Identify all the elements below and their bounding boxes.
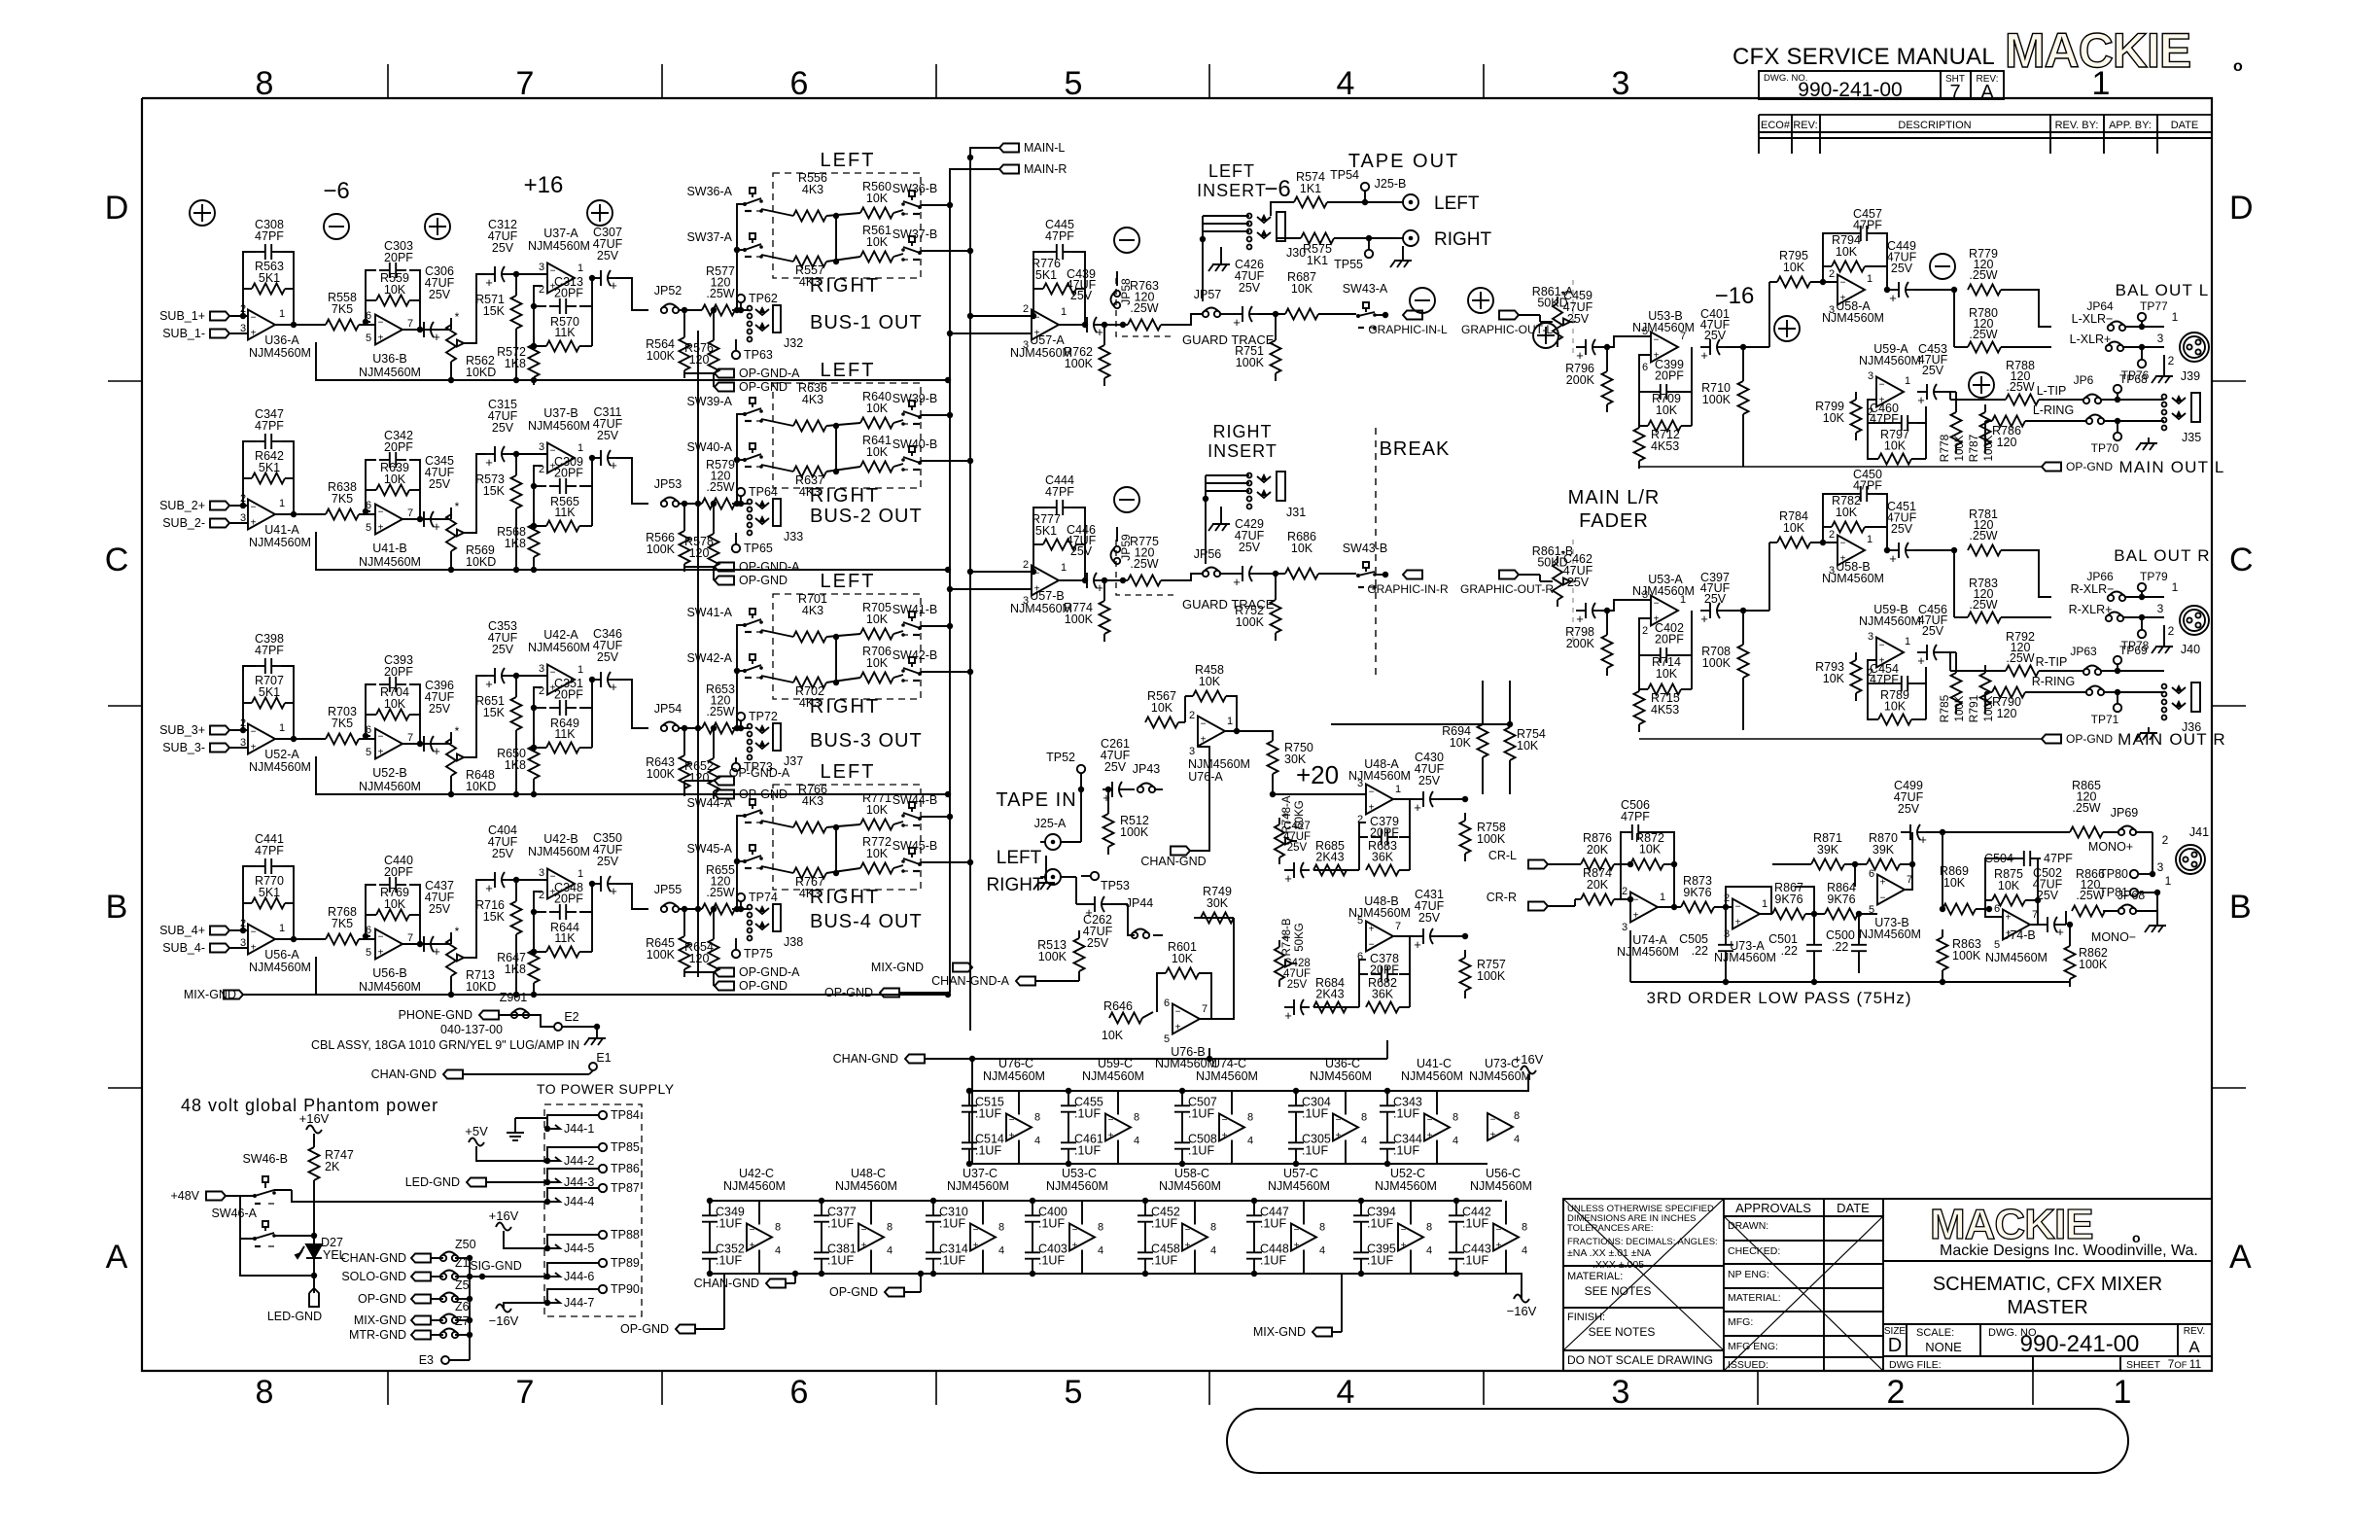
svg-text:+: +: [1576, 348, 1584, 363]
-16V row2: [1514, 1295, 1529, 1303]
svg-text:2K43: 2K43: [1315, 988, 1344, 1001]
svg-text:D: D: [2229, 190, 2254, 227]
capacitor C353 47UF: [485, 675, 495, 677]
bypass wires: [1295, 1091, 1297, 1096]
+5V supply: [469, 1138, 484, 1146]
svg-text:MTR-GND: MTR-GND: [349, 1328, 406, 1342]
svg-text:OP-GND: OP-GND: [739, 380, 787, 394]
svg-text:36K: 36K: [1372, 851, 1394, 864]
resistor R578 120: [713, 526, 715, 534]
svg-text:1: 1: [2165, 874, 2172, 888]
svg-text:NJM4560M: NJM4560M: [359, 366, 421, 379]
capacitor C506 47PF: [1622, 831, 1632, 833]
svg-text:J41: J41: [2189, 825, 2209, 839]
svg-text:5K1: 5K1: [1035, 268, 1057, 282]
svg-text:R-XLR+: R-XLR+: [2069, 603, 2113, 616]
svg-text:SUB_4+: SUB_4+: [159, 924, 205, 937]
resistor R650 1K8: [533, 738, 535, 746]
svg-text:−: −: [378, 932, 384, 943]
svg-text:TP74: TP74: [749, 891, 778, 904]
jumper JP64: [2108, 325, 2114, 331]
svg-text:SW45-A: SW45-A: [686, 842, 732, 856]
resistor R777 5K1: [1043, 540, 1076, 550]
svg-text:47PF: 47PF: [1045, 485, 1074, 499]
channel feed wires to banks: [737, 204, 745, 310]
svg-text:+: +: [1185, 1241, 1191, 1251]
svg-text:11: 11: [2189, 1357, 2202, 1371]
svg-text:−: −: [1840, 539, 1846, 549]
resistor R649 11K: [546, 743, 579, 753]
svg-text:TP63: TP63: [744, 348, 773, 362]
svg-text:200K: 200K: [1566, 637, 1595, 650]
svg-text:CHAN-GND: CHAN-GND: [833, 1052, 898, 1066]
svg-text:2: 2: [2168, 354, 2175, 367]
capacitor C501 .22: [1813, 934, 1815, 945]
op-amp U74-B: [2003, 910, 2030, 940]
resistor R775 120 .25W: [1128, 576, 1161, 586]
test point TP55: [1365, 250, 1373, 258]
jumper JP56: [1203, 571, 1208, 577]
svg-text:REV.: REV.: [2184, 1326, 2205, 1337]
svg-text:.1UF: .1UF: [1393, 1107, 1419, 1121]
bypass row 1 rails: [972, 1090, 1517, 1092]
svg-text:JP59: JP59: [1119, 534, 1133, 561]
svg-text:TP85: TP85: [611, 1140, 640, 1154]
potentiometer R569 10KD: [450, 507, 452, 514]
svg-text:2: 2: [1724, 892, 1730, 904]
svg-text:U37-A: U37-A: [543, 227, 578, 240]
capacitor C308 47PF: [255, 251, 265, 253]
resistor R573 15K: [515, 468, 517, 475]
svg-text:100K: 100K: [1120, 825, 1149, 839]
test point TP73: [732, 763, 740, 771]
flag OP-GND mid: [880, 989, 899, 997]
svg-text:4: 4: [1514, 1134, 1520, 1145]
svg-text:.1UF: .1UF: [939, 1217, 965, 1231]
wire input-: [229, 747, 248, 749]
svg-text:NJM4560M: NJM4560M: [1159, 1179, 1221, 1193]
svg-text:FADER: FADER: [1579, 510, 1649, 532]
svg-text:NJM4560M: NJM4560M: [1617, 945, 1679, 959]
svg-text:25V: 25V: [1898, 802, 1920, 816]
svg-text:5K1: 5K1: [259, 886, 280, 899]
+48V J44-4 wire: [274, 1189, 292, 1191]
svg-text:25V: 25V: [1418, 774, 1441, 787]
op-amp U76-B: [1172, 1004, 1200, 1034]
svg-text:10K: 10K: [1998, 879, 2020, 892]
svg-text:10K: 10K: [1199, 675, 1221, 688]
svg-text:REV. BY:: REV. BY:: [2055, 120, 2099, 131]
wire to bus: [616, 884, 648, 909]
svg-text:100K: 100K: [1952, 949, 1981, 962]
flag PHONE-GND: [479, 1011, 499, 1020]
test point TP85: [599, 1143, 607, 1151]
svg-text:U56-B: U56-B: [372, 966, 406, 980]
op-amp U36-A: [248, 310, 275, 340]
svg-text:25V: 25V: [1567, 576, 1590, 589]
svg-text:10K: 10K: [866, 445, 889, 459]
capacitor C350 47UF: [591, 883, 601, 885]
svg-text:D: D: [105, 190, 129, 227]
svg-text:+: +: [1108, 1131, 1114, 1141]
svg-text:TP90: TP90: [611, 1282, 640, 1296]
input flag SUB_3-: [210, 744, 229, 752]
wire opamp1 out: [275, 738, 326, 740]
capacitor C443 .1UF: [1455, 1242, 1457, 1253]
bypass wires: [1181, 1091, 1183, 1096]
wire input+: [229, 505, 248, 507]
svg-text:8: 8: [1034, 1112, 1040, 1124]
svg-text:2K: 2K: [325, 1160, 340, 1173]
svg-text:+: +: [1284, 871, 1292, 886]
resistor R702 4K3: [793, 678, 826, 688]
svg-text:3: 3: [1622, 922, 1627, 933]
ferrite Z6: [440, 1317, 446, 1323]
svg-text:8: 8: [1452, 1112, 1458, 1124]
flag MIX-GND: [411, 1316, 431, 1325]
ferrite Z901: [511, 1012, 517, 1018]
svg-text:100K: 100K: [1236, 615, 1265, 629]
jack wires: [732, 727, 745, 729]
svg-text:D27: D27: [321, 1236, 343, 1249]
svg-text:−16: −16: [1715, 283, 1755, 309]
svg-text:6: 6: [1164, 997, 1170, 1009]
svg-text:MAIN-R: MAIN-R: [1024, 162, 1067, 176]
dashed selector box: [773, 383, 921, 488]
switch SW42-B: [909, 657, 915, 663]
svg-text:39K: 39K: [1872, 843, 1895, 857]
capacitor C312 47UF: [485, 273, 495, 275]
svg-text:L-XLR−: L-XLR−: [2072, 312, 2114, 326]
svg-text:7K5: 7K5: [332, 917, 353, 930]
svg-text:4K3: 4K3: [802, 794, 823, 808]
svg-text:R748-A: R748-A: [1281, 795, 1293, 833]
size scale cells: [1906, 1324, 1907, 1356]
svg-text:+: +: [1700, 612, 1708, 626]
resistor R576 120: [713, 332, 715, 340]
svg-text:.1UF: .1UF: [716, 1217, 742, 1231]
resistor R876 20K: [1581, 859, 1614, 870]
svg-text:TP80: TP80: [2099, 867, 2128, 881]
feedback3 wires: [534, 286, 546, 346]
svg-text:−: −: [1185, 1225, 1191, 1236]
op-amp U42-B: [547, 869, 575, 899]
svg-text:+: +: [1917, 653, 1925, 668]
svg-text:3: 3: [1612, 65, 1630, 102]
wire MAIN-R: [950, 169, 999, 202]
op-amp U74-A: [1630, 892, 1658, 923]
flag CHAN-GND-A: [1016, 977, 1035, 986]
resistor R637 4K3: [793, 467, 826, 477]
svg-text:TP79: TP79: [2140, 570, 2168, 583]
svg-text:NJM4560M: NJM4560M: [1859, 614, 1921, 628]
svg-text:4: 4: [998, 1245, 1004, 1257]
resistor R512 100K: [1107, 806, 1109, 814]
op-amp U37-A: [547, 263, 575, 294]
svg-text:NJM4560M: NJM4560M: [1470, 1179, 1532, 1193]
svg-text:−: −: [378, 732, 384, 743]
svg-text:BUS-1 OUT: BUS-1 OUT: [810, 312, 923, 333]
capacitor C261 47UF: [1102, 788, 1112, 790]
svg-text:LEFT: LEFT: [1434, 193, 1480, 214]
svg-text:U57-A: U57-A: [1030, 333, 1065, 347]
svg-text:120: 120: [689, 353, 710, 367]
svg-text:2: 2: [1189, 710, 1195, 721]
svg-text:−: −: [1034, 569, 1040, 579]
test point TP77: [2138, 313, 2146, 321]
wire input: [1011, 571, 1033, 573]
connector pin J44-2: [550, 1157, 560, 1161]
svg-text:5: 5: [1065, 65, 1083, 102]
svg-text:−: −: [1880, 893, 1886, 904]
svg-text:100K: 100K: [1954, 695, 1966, 721]
svg-text:R-TIP: R-TIP: [2036, 655, 2068, 669]
test point TP64: [737, 488, 745, 496]
phantom wires: [240, 1196, 255, 1239]
svg-text:J44-1: J44-1: [564, 1122, 594, 1136]
jack wires: [732, 908, 745, 910]
jumper tip: [2083, 398, 2089, 403]
svg-text:U42-C: U42-C: [739, 1167, 774, 1180]
op-amp U57-A: [1032, 310, 1059, 340]
svg-text:R787: R787: [1967, 434, 1980, 462]
capacitor C460 47PF: [1891, 422, 1902, 424]
svg-text:MACKIE: MACKIE: [2005, 23, 2190, 78]
svg-text:10K: 10K: [1291, 282, 1313, 296]
svg-text:E1: E1: [596, 1051, 611, 1065]
wire opamp2 out: [402, 743, 439, 745]
svg-text:25V: 25V: [597, 429, 619, 442]
svg-text:7: 7: [1395, 921, 1401, 932]
bypass wires: [1360, 1201, 1362, 1206]
svg-text:GRAPHIC-OUT-R: GRAPHIC-OUT-R: [1460, 582, 1554, 596]
svg-text:+: +: [251, 743, 257, 753]
switch SW44-B: [909, 802, 915, 808]
flag CHAN-GND row1: [905, 1055, 925, 1064]
fader pot R861-A 50KD: [1557, 297, 1558, 303]
svg-text:.22: .22: [1832, 940, 1848, 954]
ground at J30: [1220, 259, 1222, 264]
flag CHAN-GND row2: [766, 1279, 786, 1288]
svg-text:3: 3: [1868, 631, 1873, 643]
test point TP53: [1091, 872, 1099, 880]
svg-text:3: 3: [240, 937, 246, 949]
capacitor C400 .1UF: [1032, 1206, 1033, 1216]
LED-GND flag power: [467, 1178, 486, 1187]
svg-text:10KD: 10KD: [466, 366, 496, 379]
resistor R771 10K: [860, 820, 893, 830]
svg-text:JP63: JP63: [2070, 645, 2097, 658]
svg-text:TP52: TP52: [1046, 751, 1075, 764]
svg-text:25V: 25V: [1070, 289, 1093, 302]
test point TP76: [2138, 360, 2146, 367]
test point TP90: [599, 1285, 607, 1293]
test point TP84: [599, 1111, 607, 1119]
resistor R778 100K: [1955, 404, 1957, 412]
resistor R513 100K: [1078, 930, 1080, 938]
svg-text:100K: 100K: [1477, 832, 1506, 846]
capacitor C499 47UF: [1901, 831, 1910, 833]
wire to XLR minus: [2001, 550, 2051, 597]
svg-text:NJM4560M: NJM4560M: [359, 980, 421, 994]
bank2 wires to rails: [921, 414, 950, 416]
resistor R708 100K: [1742, 637, 1744, 645]
jumper ring: [2086, 689, 2092, 695]
switch SW44-A: [750, 799, 755, 805]
svg-text:CHAN-GND: CHAN-GND: [694, 1277, 759, 1290]
resistor R785 100K: [1955, 665, 1957, 673]
svg-text:1: 1: [1227, 716, 1233, 727]
switch SW40-B: [909, 446, 915, 452]
svg-text:+: +: [1917, 393, 1925, 407]
wire input-: [229, 332, 248, 334]
resistor R769 10K: [376, 910, 409, 921]
resistor R716 15K: [515, 893, 517, 901]
svg-text:.25W: .25W: [1969, 268, 1997, 282]
svg-text:25V: 25V: [429, 477, 451, 491]
svg-text:.1UF: .1UF: [1462, 1217, 1488, 1231]
svg-text:J44-5: J44-5: [564, 1242, 594, 1255]
svg-text:1: 1: [2114, 1374, 2132, 1411]
svg-text:25V: 25V: [1704, 592, 1727, 606]
svg-text:JP53: JP53: [654, 477, 682, 491]
svg-text:LED-GND: LED-GND: [267, 1310, 322, 1323]
jumper JP66: [2108, 595, 2114, 601]
svg-text:7: 7: [1202, 1003, 1207, 1015]
svg-text:2: 2: [1023, 303, 1029, 315]
test point TP81: [2130, 889, 2138, 896]
svg-text:1: 1: [2172, 310, 2179, 324]
resistor R704 10K: [376, 710, 409, 720]
svg-text:4: 4: [1337, 65, 1355, 102]
svg-text:1: 1: [1867, 534, 1872, 545]
guard trace dashed L: [1116, 278, 1173, 336]
svg-text:TP84: TP84: [611, 1108, 640, 1122]
svg-text:1: 1: [279, 308, 285, 320]
earth sym power: [514, 1126, 516, 1133]
capacitor C396 47UF: [414, 743, 424, 745]
svg-text:2: 2: [1622, 886, 1627, 897]
svg-text:−: −: [251, 313, 257, 324]
svg-text:25V: 25V: [597, 650, 619, 664]
resistor R707 5K1: [252, 698, 285, 709]
svg-text:U37-C: U37-C: [962, 1167, 997, 1180]
svg-text:20PF: 20PF: [384, 865, 413, 879]
svg-text:7: 7: [407, 932, 413, 944]
input flag SUB_4+: [210, 927, 229, 935]
U76-B fb wires: [1142, 1012, 1153, 1018]
capacitor C430 47UF: [1414, 798, 1423, 800]
svg-text:NJM4560M: NJM4560M: [1348, 906, 1411, 920]
capacitor C459 47UF: [1576, 346, 1586, 348]
svg-text:OP-GND: OP-GND: [358, 1292, 406, 1306]
+16V supply phantom: [306, 1126, 322, 1134]
svg-text:U42-B: U42-B: [543, 832, 577, 846]
svg-text:JP43: JP43: [1133, 762, 1161, 776]
resistor R701 4K3: [793, 632, 826, 643]
tape out grounds: [1402, 255, 1404, 261]
resistor R763 120 .25W: [1128, 320, 1161, 331]
flag +48V: [206, 1192, 226, 1201]
svg-text:.25W: .25W: [2006, 651, 2034, 665]
test point TP78: [2138, 630, 2146, 638]
svg-text:10K: 10K: [1517, 739, 1539, 752]
flag MTR-GND: [411, 1331, 431, 1340]
svg-text:20PF: 20PF: [1370, 963, 1399, 977]
svg-text:U41-A: U41-A: [264, 523, 299, 537]
test point TP88: [599, 1231, 607, 1239]
sig-gnd vertical: [469, 1258, 471, 1360]
svg-text:5K1: 5K1: [259, 271, 280, 285]
svg-text:7: 7: [516, 1374, 535, 1411]
svg-text:3: 3: [1612, 1374, 1630, 1411]
svg-text:SW37-A: SW37-A: [686, 230, 732, 244]
flag GRAPHIC-IN-R: [1403, 571, 1422, 579]
resistor R577 120 .25W: [702, 305, 735, 316]
wire U57-A to JP57: [1161, 314, 1204, 325]
svg-text:+: +: [1336, 1131, 1342, 1141]
svg-text:TP55: TP55: [1334, 258, 1363, 271]
resistor R869 10K: [1942, 904, 1976, 915]
svg-text:11K: 11K: [554, 931, 576, 945]
svg-text:4K3: 4K3: [802, 183, 823, 196]
ground flag OP-GND-A: [715, 777, 734, 786]
resistor R646 10K: [1109, 1013, 1142, 1024]
svg-text:+: +: [1889, 291, 1897, 305]
svg-text:+5V: +5V: [465, 1124, 488, 1138]
svg-text:30K: 30K: [1207, 896, 1229, 910]
test point TP52: [1077, 765, 1085, 773]
svg-text:100K: 100K: [647, 948, 676, 962]
resistor R874 20K: [1581, 894, 1614, 905]
svg-text:+: +: [1369, 803, 1375, 814]
resistor R653 120 .25W: [702, 723, 735, 734]
op-amp U41-A: [248, 500, 275, 530]
svg-text:.1UF: .1UF: [1151, 1217, 1177, 1231]
U74-B fb wires: [1985, 900, 2003, 917]
svg-text:1: 1: [1867, 273, 1872, 285]
resistor R747 2K: [313, 1139, 315, 1147]
input flag SUB_2+: [210, 502, 229, 510]
svg-text:2: 2: [1023, 559, 1029, 571]
BREAK dashed line: [1375, 428, 1377, 681]
svg-text:50KG: 50KG: [1294, 800, 1306, 828]
flag CHAN-GND main: [443, 1070, 463, 1079]
op-amp U52-A: [248, 724, 275, 754]
flag GRAPHIC-OUT-L: [1499, 311, 1519, 320]
svg-text:25V: 25V: [1239, 541, 1261, 554]
svg-text:GRAPHIC-IN-R: GRAPHIC-IN-R: [1367, 582, 1449, 596]
svg-text:1: 1: [1762, 898, 1767, 910]
svg-text:−: −: [251, 927, 257, 938]
fb wires 2: [1868, 400, 1878, 459]
jumper JP57: [1203, 311, 1208, 317]
resistor R864 9K76: [1825, 909, 1858, 920]
capacitor C437 47UF: [414, 943, 424, 945]
svg-text:2: 2: [1829, 268, 1835, 280]
svg-text:10K: 10K: [1943, 876, 1966, 890]
svg-text:120: 120: [1997, 707, 2017, 720]
svg-text:10K: 10K: [866, 235, 889, 249]
svg-text:−: −: [1175, 1007, 1181, 1018]
stadium outline bottom: [1227, 1409, 2128, 1473]
svg-text:MIX-GND: MIX-GND: [184, 988, 236, 1001]
dashed selector box: [773, 785, 921, 890]
svg-text:NJM4560M: NJM4560M: [1046, 1179, 1108, 1193]
guard trace dashed R: [1116, 540, 1173, 595]
svg-text:4: 4: [1452, 1136, 1458, 1147]
svg-text:B: B: [106, 889, 128, 926]
